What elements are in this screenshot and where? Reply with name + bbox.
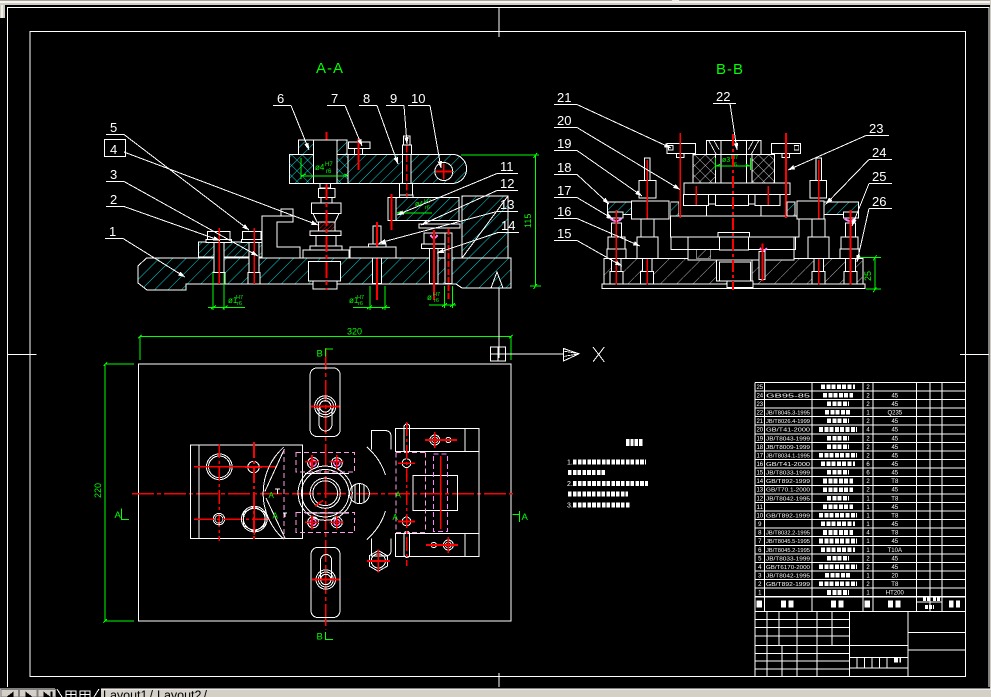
svg-text:JB/T8045.5-1995: JB/T8045.5-1995 xyxy=(766,539,810,545)
svg-text:4: 4 xyxy=(110,142,117,157)
svg-text:r6: r6 xyxy=(237,301,242,307)
svg-text:19: 19 xyxy=(756,436,763,442)
svg-text:Q235: Q235 xyxy=(887,411,902,417)
svg-text:JB/T8043-1999: JB/T8043-1999 xyxy=(766,436,810,442)
svg-text:H7: H7 xyxy=(325,162,333,168)
base plate center hole xyxy=(309,262,341,282)
workpiece section red xyxy=(319,222,336,231)
svg-text:r6: r6 xyxy=(358,301,363,307)
svg-text:HT200: HT200 xyxy=(886,591,905,597)
115 vertical dim right xyxy=(461,153,541,289)
mid bolt (13) xyxy=(365,222,390,300)
thin bolt at 448 xyxy=(445,233,452,284)
mid support plate left (hatched) xyxy=(199,242,273,257)
left outer bolt xyxy=(607,210,626,285)
interior green A letters xyxy=(269,491,402,523)
svg-text:18: 18 xyxy=(756,445,763,451)
svg-text:JB/T8032.2-1995: JB/T8032.2-1995 xyxy=(766,531,810,537)
title block outline xyxy=(755,612,966,677)
big circle top-left xyxy=(207,454,233,480)
svg-text:26: 26 xyxy=(872,194,886,209)
wedge triangle right end xyxy=(491,272,503,288)
hex nut row on plate xyxy=(683,195,708,206)
collar and neck xyxy=(718,232,750,237)
stud item 9 xyxy=(403,136,410,145)
active tab 模型 white glyphs on black xyxy=(57,689,99,697)
svg-text:JB/T8026.4-1999: JB/T8026.4-1999 xyxy=(766,419,810,425)
320 dim top xyxy=(138,327,513,360)
svg-text:16: 16 xyxy=(557,204,571,219)
nut xyxy=(319,189,336,198)
base plate (white hatch) xyxy=(604,259,863,285)
svg-text:10: 10 xyxy=(411,91,425,106)
svg-text:6: 6 xyxy=(277,91,284,106)
dim 2 xyxy=(369,286,371,310)
box symbol xyxy=(491,347,506,361)
svg-text:1: 1 xyxy=(109,224,116,239)
notes title blob xyxy=(626,439,643,446)
svg-text:T8: T8 xyxy=(891,496,899,502)
svg-text:A: A xyxy=(273,512,279,521)
BOM header row xyxy=(759,603,761,605)
bushing hole xyxy=(314,140,337,184)
svg-text:45: 45 xyxy=(891,419,898,425)
base center hole xyxy=(716,260,752,281)
drill plate (white hatch) xyxy=(693,155,775,184)
svg-text:25: 25 xyxy=(863,271,873,281)
balloon 22 top xyxy=(713,89,892,262)
svg-text:11: 11 xyxy=(500,159,514,174)
svg-text:24: 24 xyxy=(756,393,763,399)
bolt 1 left xyxy=(206,228,231,284)
svg-text:GB/T892-1999: GB/T892-1999 xyxy=(766,582,810,588)
right T-screw xyxy=(771,144,800,154)
magenta dashed verticals xyxy=(396,452,426,532)
svg-text:21: 21 xyxy=(557,90,571,105)
centerline xyxy=(326,132,328,290)
svg-text:JB/T8042-1995: JB/T8042-1995 xyxy=(766,574,810,580)
top bushing block left (hatched) xyxy=(290,154,348,183)
svg-text:T8: T8 xyxy=(891,531,899,537)
left T-screw xyxy=(667,144,695,154)
svg-text:GB/T6170-2000: GB/T6170-2000 xyxy=(766,565,810,571)
svg-text:T8: T8 xyxy=(891,582,899,588)
svg-text:2: 2 xyxy=(110,192,117,207)
lower right hatched block (11) xyxy=(396,198,460,221)
svg-text:ø4: ø4 xyxy=(315,163,325,172)
svg-text:GB/T41-2000: GB/T41-2000 xyxy=(766,462,810,468)
svg-text:T8: T8 xyxy=(891,514,899,520)
svg-text:JB/T8033-1999: JB/T8033-1999 xyxy=(766,556,810,562)
bolt holes through base xyxy=(612,259,622,272)
svg-text:45: 45 xyxy=(891,445,898,451)
bushing hole xyxy=(716,155,752,184)
svg-text:45: 45 xyxy=(891,436,898,442)
dim 1 xyxy=(212,273,214,310)
hex nut lower xyxy=(243,507,265,532)
svg-text:20: 20 xyxy=(756,428,763,434)
svg-text:16: 16 xyxy=(756,462,763,468)
collar xyxy=(310,231,341,236)
center red centerline dashed xyxy=(732,134,734,290)
upper wide plate xyxy=(684,183,790,194)
A section marks xyxy=(115,509,529,523)
small white marks near letters xyxy=(275,489,280,494)
bottom centering tick xyxy=(498,673,500,687)
svg-text:24: 24 xyxy=(872,145,886,160)
svg-text:Layout1: Layout1 xyxy=(103,689,148,697)
vertical line from A-A wedge down to box symbol xyxy=(498,289,500,359)
left arm (cyan hatch) xyxy=(608,202,643,215)
vertical slot ovals and circles at x=406.8 xyxy=(404,424,410,453)
thin strip washer (12) xyxy=(419,224,460,228)
center clamp stack xyxy=(303,132,349,290)
base lip band xyxy=(602,284,865,288)
locating pin right xyxy=(760,248,767,251)
small screw on top of block xyxy=(349,142,371,149)
black zone behind active tab xyxy=(55,689,101,697)
svg-text:12: 12 xyxy=(756,496,763,502)
svg-text:14: 14 xyxy=(501,218,515,233)
svg-text:r6: r6 xyxy=(326,169,332,175)
svg-text:9: 9 xyxy=(390,91,397,106)
main rectangle xyxy=(138,364,511,621)
svg-text:45: 45 xyxy=(891,505,898,511)
svg-text:45: 45 xyxy=(891,393,898,399)
svg-text:3.: 3. xyxy=(567,503,573,510)
svg-text:14: 14 xyxy=(756,479,763,485)
svg-text:JB/T8042-1995: JB/T8042-1995 xyxy=(766,496,810,502)
svg-text:ø3: ø3 xyxy=(722,157,730,164)
balloons left 15-21 xyxy=(554,90,680,266)
svg-text:18: 18 xyxy=(557,160,571,175)
svg-text:23: 23 xyxy=(869,121,883,136)
right arm xyxy=(824,202,859,215)
svg-text:Layout2: Layout2 xyxy=(157,689,202,697)
svg-text:45: 45 xyxy=(891,471,898,477)
washer xyxy=(312,203,342,214)
svg-text:ø: ø xyxy=(427,293,432,302)
nav buttons xyxy=(1,690,56,697)
svg-text:7: 7 xyxy=(331,91,338,106)
svg-text:2.: 2. xyxy=(567,481,573,488)
svg-text:45: 45 xyxy=(891,522,898,528)
svg-text:A: A xyxy=(115,510,122,521)
right hex nut on plate xyxy=(816,158,822,181)
X axis arrow xyxy=(506,353,564,355)
svg-text:8: 8 xyxy=(363,91,370,106)
red marks xyxy=(425,439,457,441)
bushing gap in it xyxy=(388,198,396,221)
svg-text:45: 45 xyxy=(891,402,898,408)
side clamp circle xyxy=(349,484,369,504)
left block xyxy=(191,442,303,541)
pivot pin circle xyxy=(435,163,453,181)
left centering mark xyxy=(8,353,37,355)
svg-text:B: B xyxy=(317,631,323,642)
lower nut assembly (14) xyxy=(424,233,449,246)
svg-text:11: 11 xyxy=(757,505,764,511)
left hex nut on plate xyxy=(644,158,650,181)
green 25 dim xyxy=(860,255,881,292)
magenta dashed rects with bolt circles xyxy=(296,452,354,532)
svg-text:GB/T41-2000: GB/T41-2000 xyxy=(766,428,810,434)
svg-text:r6: r6 xyxy=(425,205,430,211)
base center pad below xyxy=(313,281,337,289)
svg-text:25: 25 xyxy=(872,169,886,184)
bushing centerline second hole xyxy=(391,194,393,230)
svg-text:23: 23 xyxy=(756,402,763,408)
svg-text:15: 15 xyxy=(756,471,763,477)
big arc around center xyxy=(263,447,284,539)
svg-text:A-A: A-A xyxy=(316,60,344,77)
svg-text:25: 25 xyxy=(756,385,763,391)
svg-text:B: B xyxy=(317,349,323,360)
svg-text:A: A xyxy=(396,491,402,500)
svg-text:GB95-85: GB95-85 xyxy=(766,393,810,399)
svg-text:3: 3 xyxy=(110,167,117,182)
left stud body below xyxy=(641,219,654,237)
svg-text:GB/T892-1999: GB/T892-1999 xyxy=(766,479,810,485)
top cap hex xyxy=(707,140,761,154)
svg-text:20: 20 xyxy=(891,574,898,580)
svg-text:45: 45 xyxy=(891,565,898,571)
svg-text:1.: 1. xyxy=(567,460,573,467)
svg-text:10: 10 xyxy=(756,514,763,520)
svg-text:GB/T892-1999: GB/T892-1999 xyxy=(766,514,810,520)
svg-text:21: 21 xyxy=(756,419,763,425)
surface finish Y mark xyxy=(493,245,505,258)
base pad xyxy=(310,246,342,250)
svg-text:T8: T8 xyxy=(891,479,899,485)
svg-text:JB/T8045.2-1995: JB/T8045.2-1995 xyxy=(766,548,810,554)
neck piece left of block xyxy=(371,431,391,450)
key hatched xyxy=(696,249,711,258)
svg-text:220: 220 xyxy=(93,483,103,498)
svg-text:B-B: B-B xyxy=(716,61,744,78)
BOM grid xyxy=(755,381,966,383)
svg-text:45: 45 xyxy=(891,556,898,562)
screw shaft xyxy=(320,184,331,189)
svg-text:115: 115 xyxy=(523,214,533,228)
svg-text:A: A xyxy=(393,513,399,522)
svg-text:/: / xyxy=(204,689,208,697)
cone xyxy=(313,214,339,223)
top margin divider xyxy=(498,8,500,38)
svg-text:JB/T8033-1999: JB/T8033-1999 xyxy=(766,471,810,477)
svg-text:13: 13 xyxy=(500,197,514,212)
small circles top xyxy=(430,435,440,445)
svg-text:45: 45 xyxy=(891,428,898,434)
right bracket block xyxy=(371,422,478,566)
svg-text:17: 17 xyxy=(557,183,571,198)
top clamp plate big block (hatched) xyxy=(348,154,467,183)
svg-text:12: 12 xyxy=(500,176,514,191)
svg-text:45: 45 xyxy=(891,462,898,468)
small circle lower-left xyxy=(213,513,224,524)
svg-text:17: 17 xyxy=(756,453,763,459)
left stepped bracket xyxy=(262,216,300,258)
svg-text:22: 22 xyxy=(716,89,730,104)
svg-text:JB/T8009-1999: JB/T8009-1999 xyxy=(766,445,810,451)
svg-text:JB/T8034.1-1995: JB/T8034.1-1995 xyxy=(766,453,810,459)
svg-text:/: / xyxy=(150,689,154,697)
svg-text:A: A xyxy=(522,512,529,523)
svg-text:45: 45 xyxy=(891,453,898,459)
svg-text:JB/T8045.3-1995: JB/T8045.3-1995 xyxy=(766,411,810,417)
svg-text:13: 13 xyxy=(756,488,763,494)
bolt 2 xyxy=(242,228,263,284)
right support column xyxy=(462,196,508,258)
svg-text:20: 20 xyxy=(557,113,571,128)
svg-text:GB/T70.1-2000: GB/T70.1-2000 xyxy=(766,488,810,494)
svg-text:22: 22 xyxy=(756,411,763,417)
svg-text:r6: r6 xyxy=(434,298,439,304)
small circles bottom xyxy=(443,540,453,550)
bottom hex xyxy=(367,550,390,573)
svg-text:320: 320 xyxy=(347,327,362,337)
right centering mark xyxy=(960,353,989,355)
base plate (hatched) xyxy=(138,258,511,290)
main red centerlines xyxy=(132,493,516,495)
top slot arm xyxy=(310,368,340,437)
svg-text:A: A xyxy=(269,491,275,500)
bottom slot arm xyxy=(311,547,340,617)
svg-text:15: 15 xyxy=(557,226,571,241)
svg-text:45: 45 xyxy=(891,539,898,545)
svg-text:45: 45 xyxy=(891,488,898,494)
svg-text:T10A: T10A xyxy=(888,548,902,554)
small circle xyxy=(248,461,259,472)
svg-text:19: 19 xyxy=(557,136,571,151)
right outer bolt xyxy=(840,210,859,285)
red small circles left of block xyxy=(406,422,408,566)
center stepped body xyxy=(707,204,761,216)
B section marks xyxy=(317,349,334,643)
220 dim left xyxy=(93,362,134,622)
dim 3 xyxy=(444,286,446,308)
center circles xyxy=(298,466,352,520)
svg-text:5: 5 xyxy=(110,120,117,135)
mid support plate right xyxy=(350,247,396,258)
